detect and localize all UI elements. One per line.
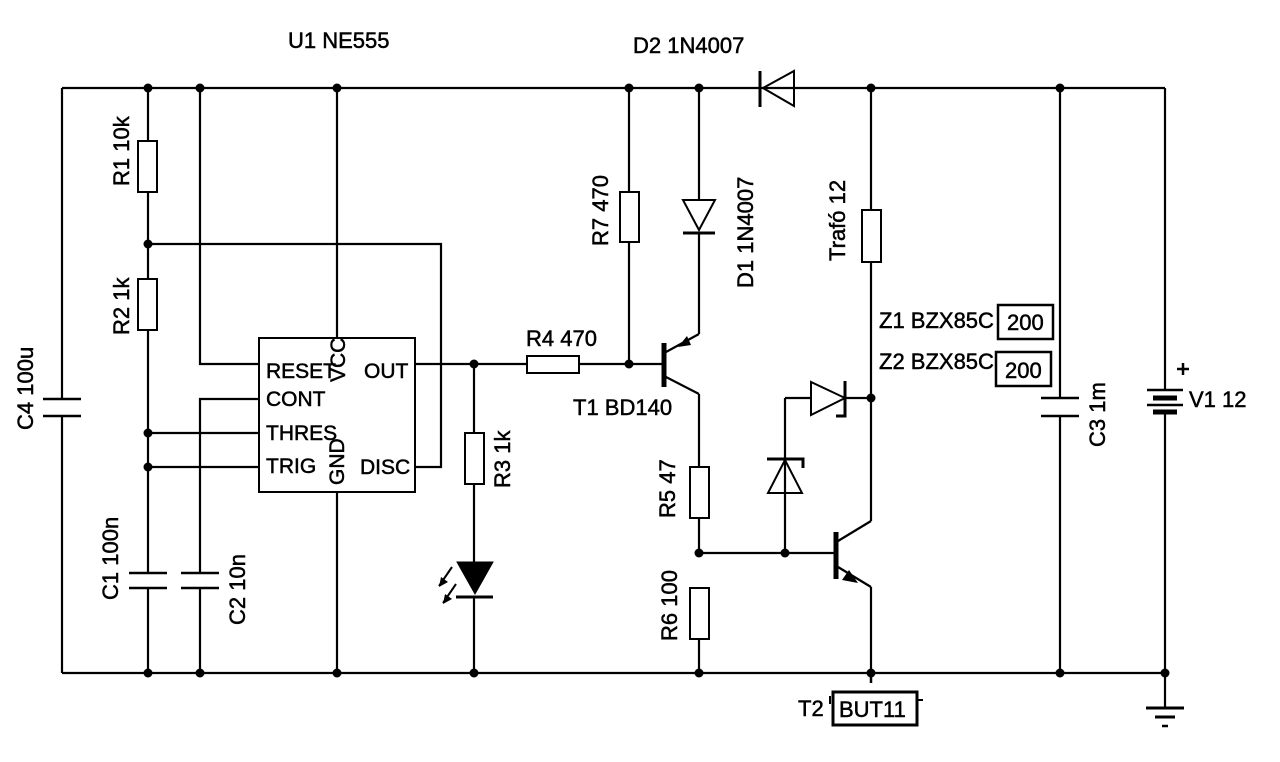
node bottom rail R6 (695, 669, 704, 678)
node bottom rail T2 (867, 669, 876, 678)
svg-text:Z2 BZX85C: Z2 BZX85C (879, 349, 994, 374)
svg-text:C4 100u: C4 100u (13, 347, 38, 430)
svg-text:V1 12: V1 12 (1189, 387, 1247, 412)
wire CONT to C2 (200, 399, 259, 573)
resistor R3 (465, 430, 515, 488)
capacitor C4 (13, 347, 81, 430)
wire R3 top (473, 364, 475, 433)
wire LED to bottom rail (473, 597, 475, 673)
wire R1 bottom to node (147, 192, 149, 279)
resistor R4 (526, 326, 597, 373)
diode D1 (683, 177, 758, 288)
wire TRIG (148, 466, 259, 468)
wire top rail (62, 87, 1165, 89)
svg-text:DISC: DISC (360, 456, 410, 479)
resistor R7 (588, 175, 639, 246)
transistor T2 BUT11 (798, 521, 923, 725)
svg-text:C3 1m: C3 1m (1085, 382, 1110, 447)
svg-text:U1 NE555: U1 NE555 (288, 28, 390, 53)
svg-text:R1 10k: R1 10k (109, 115, 134, 186)
wire OUT to R4 (415, 363, 527, 365)
wire R1 top (147, 88, 149, 141)
resistor R1 (109, 115, 157, 192)
svg-text:TRIG: TRIG (266, 455, 316, 478)
wire C3 bottom (1059, 416, 1061, 673)
node THRES (144, 429, 153, 438)
wire D1 top (698, 88, 700, 200)
transistor T1 BD140 (573, 334, 699, 420)
LED (439, 562, 493, 604)
wire VCC (336, 88, 338, 338)
wire V1 top (1164, 88, 1166, 390)
wire node R1R2 to DISC riser (148, 244, 441, 467)
wire D1 to T1 emitter (698, 233, 700, 334)
wire T2 collector riser (870, 398, 872, 521)
transformer Trafo 12 (825, 180, 881, 262)
wire T2 emitter to bottom rail (870, 587, 872, 673)
svg-text:T1 BD140: T1 BD140 (573, 395, 672, 420)
value box Z2 200 (996, 352, 1051, 386)
node TRIG (144, 463, 153, 472)
svg-text:R6 100: R6 100 (657, 570, 682, 641)
node top rail R1 (144, 84, 153, 93)
wire node to T2 base (699, 552, 835, 554)
wire R7 top (628, 88, 630, 192)
op-amp U1 NE555 IC box (259, 28, 415, 492)
node top rail Trafo (867, 84, 876, 93)
svg-text:GND: GND (326, 438, 349, 485)
wire R5 to node (698, 518, 700, 553)
svg-text:D2 1N4007: D2 1N4007 (633, 33, 744, 58)
svg-text:T2: T2 (798, 696, 824, 721)
wire Z2 branch vertical (784, 398, 786, 553)
svg-text:R2 1k: R2 1k (109, 277, 134, 335)
value box T2 BUT11 (833, 692, 917, 725)
svg-text:D1 1N4007: D1 1N4007 (733, 177, 758, 288)
resistor R6 (657, 570, 709, 641)
resistor R2 (109, 277, 157, 335)
svg-text:Trafó 12: Trafó 12 (825, 180, 850, 261)
wire R7 bottom (628, 242, 630, 364)
wire R6 bottom (698, 639, 700, 673)
node top rail D1 (695, 84, 704, 93)
node R7 base (625, 360, 634, 369)
wire GND (336, 492, 338, 673)
node bottom rail V1 (1161, 669, 1170, 678)
wire C2 to bottom rail (199, 588, 201, 673)
capacitor C2 (181, 554, 250, 625)
svg-text:R3 1k: R3 1k (490, 430, 515, 488)
wire T1 collector to R5 (698, 394, 700, 467)
svg-text:RESET: RESET (266, 360, 336, 383)
capacitor C3 (1041, 382, 1110, 447)
wire RESET from top rail (200, 88, 259, 364)
wire THRES (148, 432, 259, 434)
svg-text:BUT11: BUT11 (839, 697, 906, 722)
node bottom rail C1 (144, 669, 153, 678)
wire Z1 anode (785, 397, 811, 399)
junction nodes (144, 84, 1170, 678)
zener Z2 (767, 349, 1051, 493)
node bottom rail C3 (1056, 669, 1065, 678)
node R1 R2 (144, 240, 153, 249)
node Z2 base (781, 549, 790, 558)
wire ground stub (1164, 673, 1166, 708)
node top rail RESET (196, 84, 205, 93)
svg-text:Z1 BZX85C: Z1 BZX85C (879, 308, 994, 333)
diode D2 (633, 33, 794, 107)
node bottom rail GND (333, 669, 342, 678)
node top rail C3 (1056, 84, 1065, 93)
svg-text:R4 470: R4 470 (526, 326, 597, 351)
svg-text:C2 10n: C2 10n (225, 554, 250, 625)
svg-text:CONT: CONT (266, 388, 326, 411)
svg-text:200: 200 (1005, 358, 1042, 383)
svg-text:R5 47: R5 47 (655, 459, 680, 518)
wire C3 top (1059, 88, 1061, 398)
wire left rail upper (61, 88, 63, 399)
wire R3 to LED (473, 484, 475, 562)
svg-text:R7 470: R7 470 (588, 175, 613, 246)
ground (1146, 708, 1184, 726)
wire Z1 cathode to node (845, 397, 871, 399)
wire Trafo top (870, 88, 872, 210)
wire R4 to T1 base (579, 363, 662, 365)
wire bottom rail (62, 672, 1165, 674)
node R5 R6 (695, 549, 704, 558)
resistor R5 (655, 459, 709, 518)
wire Trafo bottom to node (870, 262, 872, 398)
node OUT R3 (470, 360, 479, 369)
svg-text:C1 100n: C1 100n (98, 517, 123, 600)
svg-text:VCC: VCC (327, 338, 350, 382)
capacitor C1 (98, 517, 167, 600)
battery V1 (1147, 363, 1247, 412)
svg-text:200: 200 (1007, 310, 1044, 335)
wire C1 to bottom rail (147, 588, 149, 673)
zener Z1 (811, 305, 1053, 416)
wire R2 bottom to C1 (147, 330, 149, 573)
wire V1 bottom (1164, 413, 1166, 673)
value box Z1 200 (998, 305, 1053, 339)
node top rail R7 (625, 84, 634, 93)
node bottom rail C2 (196, 669, 205, 678)
node bottom rail LED (470, 669, 479, 678)
node top rail VCC (333, 84, 342, 93)
node Z1 T2 collector (867, 394, 876, 403)
wire left rail lower (61, 416, 63, 673)
svg-text:OUT: OUT (364, 360, 409, 383)
